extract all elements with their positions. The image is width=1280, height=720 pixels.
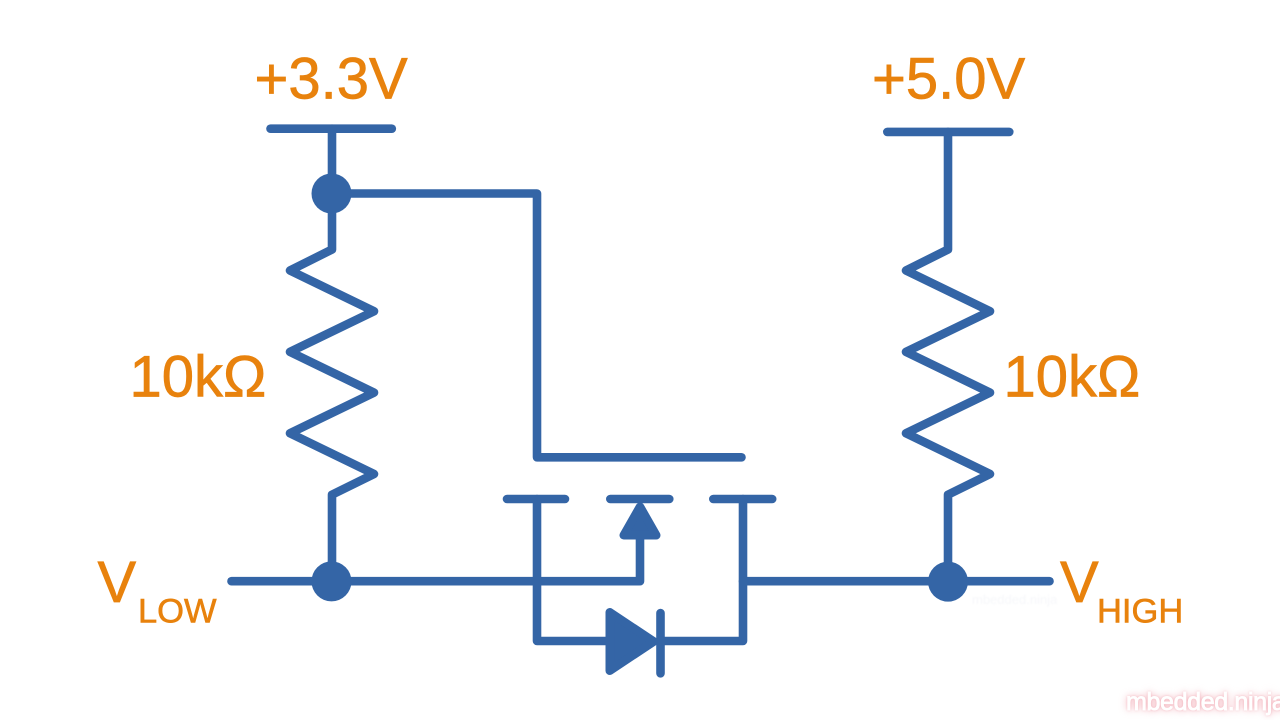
svg-text:mbedded.ninja: mbedded.ninja xyxy=(972,592,1058,607)
svg-text:V: V xyxy=(98,550,137,615)
svg-text:+3.3V: +3.3V xyxy=(255,47,408,112)
svg-text:10kΩ: 10kΩ xyxy=(130,345,267,410)
svg-text:LOW: LOW xyxy=(138,592,217,630)
svg-text:10kΩ: 10kΩ xyxy=(1004,345,1141,410)
svg-text:+5.0V: +5.0V xyxy=(872,47,1025,112)
svg-text:mbedded.ninja: mbedded.ninja xyxy=(1126,688,1280,716)
svg-text:V: V xyxy=(1060,550,1099,615)
svg-text:HIGH: HIGH xyxy=(1097,592,1183,630)
